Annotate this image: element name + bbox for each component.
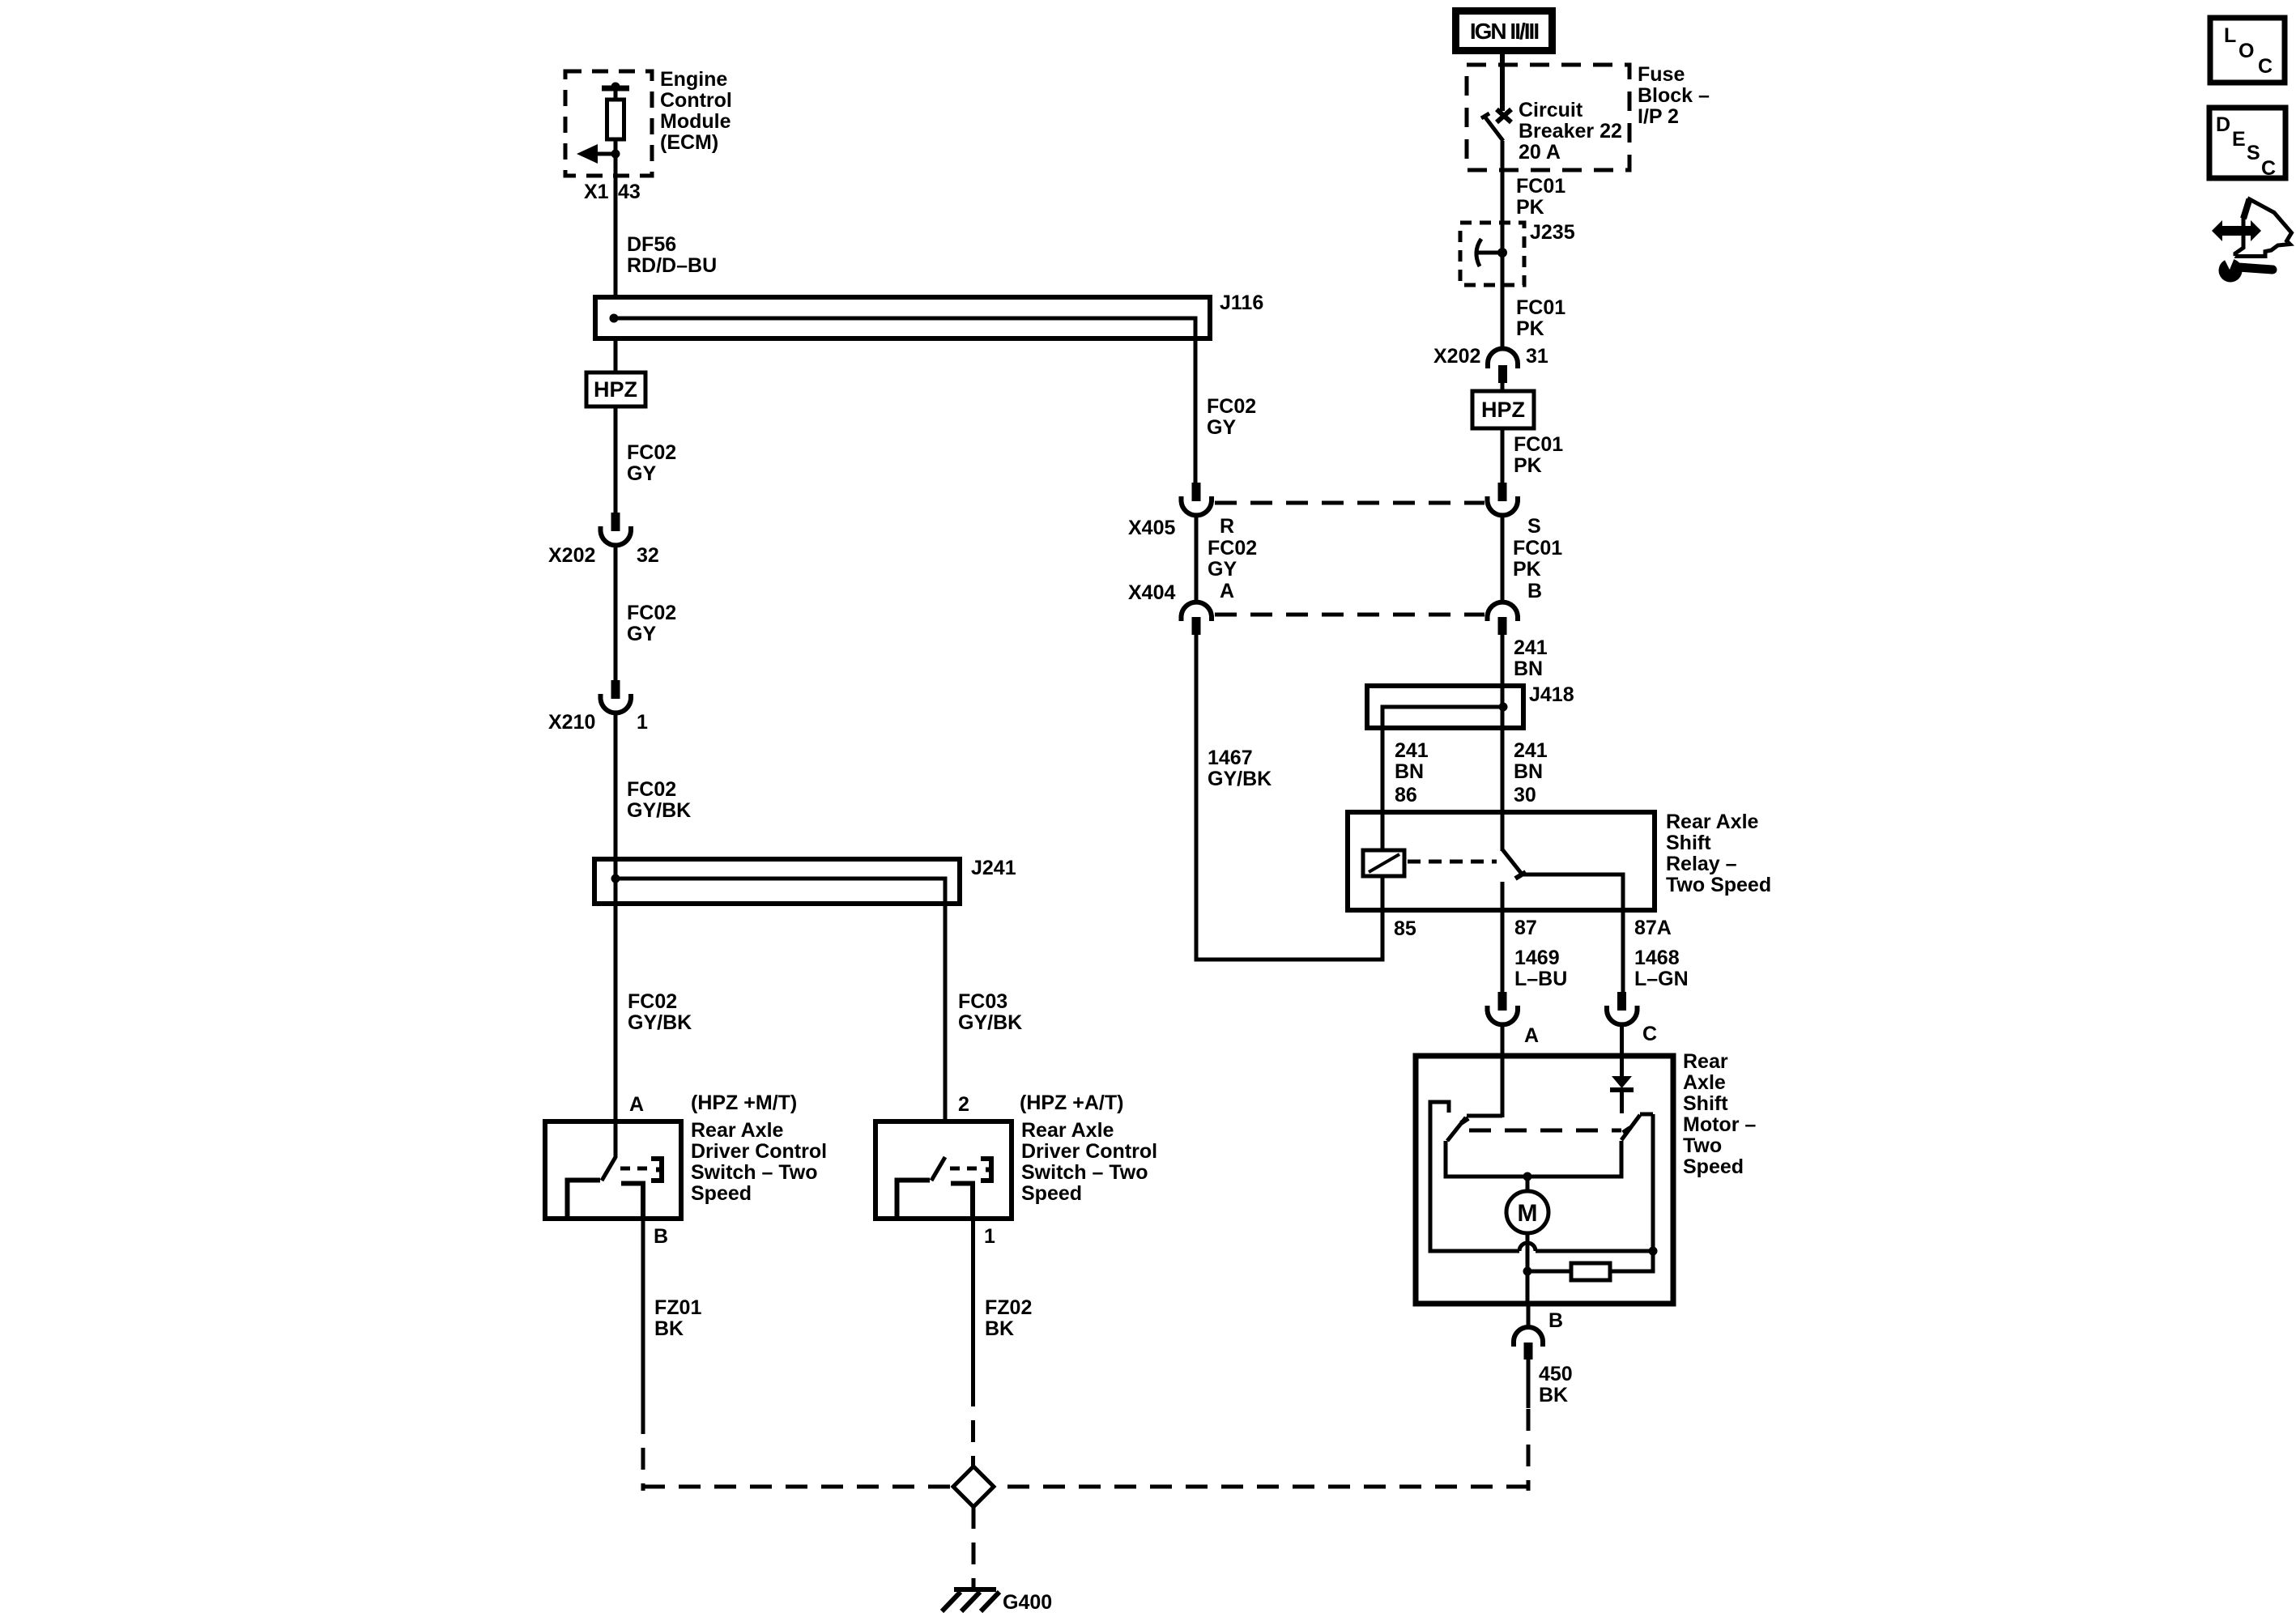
connector motor C stub bbox=[1617, 992, 1626, 1011]
wire IGN to breaker bbox=[1500, 54, 1505, 111]
motor switch pole A link bbox=[1467, 1114, 1502, 1118]
connector X202 terminal 31 cap bbox=[1488, 349, 1518, 368]
switch S1 fixed contact bbox=[568, 1181, 601, 1217]
svg-text:E: E bbox=[2232, 128, 2246, 151]
connector X404 terminal B cap bbox=[1488, 602, 1519, 621]
dashed ground wire right horizontal bbox=[995, 1485, 1528, 1489]
legend service icon arrow outline bbox=[2235, 199, 2292, 257]
arrowhead inside ECM bbox=[577, 144, 598, 164]
relay armature bbox=[1502, 849, 1521, 873]
relay box Rear Axle Shift Relay bbox=[1348, 812, 1655, 910]
svg-text:B: B bbox=[1548, 1309, 1563, 1332]
node motor right rail bbox=[1649, 1247, 1658, 1256]
wire FC02 GY X202 to X210 bbox=[614, 547, 618, 681]
connector X202 terminal 32 cup bbox=[601, 526, 632, 545]
wire 241 BN X404 to relay 30 bbox=[1501, 635, 1505, 851]
switch S1 arm bbox=[602, 1157, 616, 1181]
connector X405 terminal R stub bbox=[1192, 483, 1201, 501]
svg-text:30: 30 bbox=[1514, 784, 1536, 806]
svg-text:J116: J116 bbox=[1220, 291, 1263, 314]
fuse block dashed enclosure bbox=[1467, 65, 1629, 170]
splice pack J116 bbox=[595, 297, 1210, 338]
diode D1 bar bbox=[1610, 1087, 1634, 1092]
svg-text:HPZ: HPZ bbox=[1481, 398, 1525, 422]
ground G400 symbol bbox=[942, 1589, 999, 1611]
motor switch right arm bbox=[1621, 1115, 1640, 1140]
legend service icon wrench bbox=[2219, 256, 2273, 283]
switch S1 actuator dashes bbox=[620, 1167, 650, 1171]
dashed ground wire from FZ01 bbox=[641, 1412, 645, 1491]
connector X405 terminal S stub bbox=[1498, 483, 1507, 501]
connector motor A stub bbox=[1498, 992, 1507, 1011]
wire FC01 PK X405 to X404 bbox=[1501, 517, 1505, 602]
svg-text:R: R bbox=[1220, 515, 1234, 538]
splice diamond bbox=[953, 1466, 994, 1507]
wire common to motor M bbox=[1526, 1177, 1530, 1192]
wire FC02 GY HPZ to X202 bbox=[614, 406, 618, 513]
svg-text:86: 86 bbox=[1395, 784, 1417, 806]
node J116 bbox=[610, 314, 619, 323]
switch S1 box Rear Axle Driver Control Switch bbox=[545, 1121, 681, 1219]
svg-text:43: 43 bbox=[618, 181, 641, 203]
switch S2 arm bbox=[931, 1157, 945, 1181]
connector motor B cap bbox=[1514, 1327, 1543, 1347]
dashed ground wire left horizontal bbox=[643, 1485, 952, 1489]
wire X202 to HPZ right bbox=[1501, 383, 1505, 392]
node J418 bbox=[1499, 703, 1508, 712]
motor box Rear Axle Shift Motor bbox=[1416, 1056, 1673, 1304]
wire 1469 L-BU relay 87 to motor A bbox=[1501, 910, 1505, 993]
dashed wire diamond to ground bbox=[972, 1507, 976, 1589]
splice J235 dashed box bbox=[1460, 223, 1524, 285]
svg-text:241BN: 241BN bbox=[1395, 739, 1429, 783]
relay coil bbox=[1363, 850, 1404, 876]
connector X405 terminal R cup bbox=[1182, 496, 1212, 515]
switch S2 fixed contact bbox=[897, 1181, 931, 1217]
connector X405 terminal S cup bbox=[1488, 496, 1519, 515]
motor M circle bbox=[1506, 1191, 1548, 1233]
J241 internal bus bbox=[616, 879, 945, 1121]
svg-text:C: C bbox=[2261, 157, 2276, 180]
splice pack J418 bbox=[1367, 686, 1523, 728]
svg-text:J418: J418 bbox=[1529, 683, 1574, 706]
diode D1 triangle bbox=[1612, 1076, 1632, 1088]
motor left bracket bbox=[1430, 1102, 1519, 1251]
relay actuator dashes bbox=[1408, 860, 1497, 864]
diode D1 lower lead bbox=[1620, 1090, 1624, 1113]
svg-text:J235: J235 bbox=[1530, 221, 1575, 244]
svg-text:S: S bbox=[1527, 515, 1541, 538]
wire resistor to node bbox=[614, 139, 618, 175]
resistor inside ECM bbox=[607, 100, 624, 139]
motor resistor bbox=[1571, 1263, 1610, 1280]
ECM internal top bar bbox=[602, 86, 629, 91]
svg-text:C: C bbox=[1642, 1023, 1657, 1045]
splice pack J241 bbox=[594, 859, 960, 904]
motor switch dashes link bbox=[1469, 1129, 1621, 1133]
node motor switch common bbox=[1523, 1172, 1532, 1181]
svg-text:241BN: 241BN bbox=[1514, 636, 1548, 680]
legend DESC box bbox=[2209, 108, 2285, 180]
svg-text:S: S bbox=[2247, 142, 2260, 164]
arrow line inside ECM bbox=[597, 152, 616, 156]
svg-text:(HPZ +M/T): (HPZ +M/T) bbox=[691, 1091, 797, 1114]
wire FC02 GY X405 to X404 bbox=[1195, 517, 1199, 602]
svg-text:1469L–BU: 1469L–BU bbox=[1514, 947, 1567, 990]
wire FZ02 BK below switch 2 bbox=[971, 1219, 975, 1385]
svg-text:1: 1 bbox=[637, 711, 648, 734]
node J235 bbox=[1497, 248, 1507, 257]
legend service icon double arrow bbox=[2212, 220, 2261, 241]
dashed ground wire from B bbox=[1527, 1409, 1531, 1491]
J235 clip symbol bbox=[1476, 239, 1498, 266]
wire motor M to pin B bbox=[1526, 1233, 1530, 1304]
svg-text:450BK: 450BK bbox=[1539, 1363, 1573, 1406]
svg-text:87: 87 bbox=[1514, 917, 1537, 939]
motor bracket wire hop bbox=[1519, 1243, 1536, 1251]
svg-text:241BN: 241BN bbox=[1514, 739, 1548, 783]
motor right rail bbox=[1527, 1114, 1653, 1271]
switch S1 output contact bbox=[621, 1184, 643, 1219]
node on ECM top bar bbox=[611, 83, 620, 91]
svg-text:31: 31 bbox=[1526, 345, 1548, 368]
relay coil diagonal bbox=[1369, 854, 1399, 872]
relay armature tip tick bbox=[1515, 872, 1526, 879]
svg-text:IGN II/III: IGN II/III bbox=[1470, 19, 1538, 44]
switch S1 detent bracket bbox=[651, 1159, 662, 1181]
motor switch left arm bbox=[1447, 1117, 1466, 1141]
svg-text:A: A bbox=[1524, 1024, 1539, 1047]
node below resistor bbox=[611, 150, 620, 159]
connector X404 terminal B stub bbox=[1498, 617, 1507, 635]
ECM dashed enclosure bbox=[565, 71, 652, 176]
connector motor B stub bbox=[1524, 1343, 1533, 1360]
wire A into motor bbox=[1501, 1026, 1505, 1117]
J418 internal bus bbox=[1382, 707, 1503, 851]
switch S2 output contact bbox=[951, 1184, 973, 1219]
connector X202 terminal 31 stub bbox=[1498, 365, 1507, 383]
motor switch frame bbox=[1446, 1141, 1621, 1177]
svg-text:X404: X404 bbox=[1128, 581, 1175, 604]
wire J116 to HPZ left bbox=[614, 338, 618, 373]
wire FZ01 BK below switch 1 bbox=[641, 1219, 645, 1412]
legend service icon arrow tail bbox=[2243, 199, 2250, 219]
wire C into motor bbox=[1620, 1026, 1624, 1077]
connector X210 terminal 1 stub bbox=[611, 680, 620, 699]
svg-text:87A: 87A bbox=[1634, 917, 1672, 939]
svg-text:X202: X202 bbox=[1433, 345, 1480, 368]
svg-text:A: A bbox=[1220, 580, 1234, 602]
wire DF56 ECM to J116 bbox=[614, 175, 618, 300]
wire FC02 GY/BK X210 to switch A bbox=[614, 714, 618, 1158]
J116 internal bus bbox=[614, 318, 1195, 483]
dashed ground wire from FZ02 bbox=[971, 1385, 975, 1468]
relay contact 87 stub bbox=[1501, 882, 1505, 910]
HPZ box right bbox=[1472, 391, 1534, 428]
svg-text:O: O bbox=[2238, 40, 2254, 62]
circuit breaker CB22 contact star bbox=[1497, 109, 1511, 122]
svg-text:32: 32 bbox=[637, 544, 659, 567]
node motor resistor tee bbox=[1523, 1267, 1532, 1276]
switch S2 detent bracket bbox=[981, 1159, 991, 1181]
svg-text:B: B bbox=[654, 1225, 668, 1248]
svg-text:J241: J241 bbox=[971, 857, 1016, 879]
svg-text:M: M bbox=[1518, 1200, 1538, 1227]
wire 1467 GY/BK X404 to relay 85 bbox=[1196, 635, 1382, 960]
svg-text:C: C bbox=[2258, 55, 2273, 78]
svg-text:G400: G400 bbox=[1003, 1591, 1052, 1614]
svg-text:1: 1 bbox=[984, 1225, 995, 1248]
motor switch left arm tick bbox=[1461, 1118, 1468, 1123]
svg-text:L: L bbox=[2224, 24, 2236, 47]
wire bar to resistor bbox=[614, 88, 618, 100]
wire 1468 L-GN relay 87A to motor C bbox=[1621, 910, 1625, 993]
connector X202 terminal 32 stub bbox=[611, 513, 620, 531]
connector X404 terminal A stub bbox=[1192, 617, 1201, 635]
connector X210 terminal 1 cup bbox=[601, 694, 632, 713]
motor switch right arm link bbox=[1640, 1113, 1653, 1117]
wire 450 BK bbox=[1527, 1360, 1531, 1408]
power feed box IGN II/III bbox=[1452, 7, 1556, 54]
svg-text:X202: X202 bbox=[548, 544, 595, 567]
svg-text:2: 2 bbox=[958, 1093, 969, 1116]
svg-text:(HPZ +A/T): (HPZ +A/T) bbox=[1020, 1091, 1123, 1114]
dashed harness line X405 bbox=[1215, 501, 1485, 505]
relay contact 87A line bbox=[1522, 874, 1623, 910]
connector motor C cup bbox=[1607, 1006, 1638, 1024]
dashed harness line X404 bbox=[1215, 613, 1485, 617]
svg-text:D: D bbox=[2216, 113, 2230, 136]
switch S2 box Rear Axle Driver Control Switch bbox=[875, 1121, 1012, 1219]
svg-text:B: B bbox=[1527, 580, 1542, 602]
motor bracket wire to node bbox=[1536, 1249, 1653, 1253]
relay coil wire to 85 bbox=[1381, 876, 1385, 910]
legend LOC box bbox=[2210, 18, 2285, 83]
svg-text:X405: X405 bbox=[1128, 517, 1175, 539]
wire FC01 PK breaker to X202 bbox=[1501, 141, 1505, 350]
svg-text:X1: X1 bbox=[584, 181, 609, 203]
wire FC01 PK HPZ to X405 bbox=[1501, 428, 1505, 483]
connector X404 terminal A cap bbox=[1182, 602, 1212, 621]
switch S2 actuator dashes bbox=[950, 1167, 980, 1171]
motor switch right arm tick bbox=[1623, 1128, 1630, 1133]
circuit breaker CB22 arm bbox=[1481, 113, 1503, 141]
svg-text:X210: X210 bbox=[548, 711, 595, 734]
wire motor B out bbox=[1527, 1304, 1531, 1328]
node J241 bbox=[611, 874, 620, 883]
svg-text:HPZ: HPZ bbox=[594, 377, 637, 402]
svg-text:85: 85 bbox=[1394, 917, 1416, 940]
connector motor A cup bbox=[1488, 1006, 1519, 1024]
HPZ box left bbox=[586, 372, 645, 406]
svg-text:A: A bbox=[629, 1093, 644, 1116]
